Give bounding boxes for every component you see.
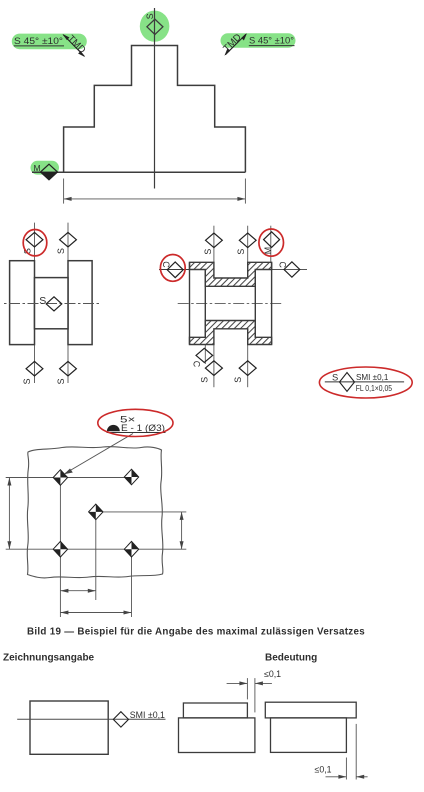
svg-text:S: S — [22, 378, 32, 384]
svg-text:S: S — [56, 248, 66, 254]
svg-text:S: S — [39, 295, 46, 307]
svg-text:S: S — [203, 249, 213, 255]
svg-text:Bedeutung: Bedeutung — [265, 653, 317, 664]
svg-text:FL 0,1×0,05: FL 0,1×0,05 — [356, 383, 393, 393]
svg-text:M: M — [34, 163, 41, 173]
svg-text:E - 1 (Ø3): E - 1 (Ø3) — [121, 423, 165, 433]
svg-text:S: S — [332, 371, 338, 382]
svg-text:≤0,1: ≤0,1 — [264, 669, 281, 679]
svg-text:C: C — [191, 361, 201, 368]
svg-text:S: S — [236, 249, 246, 255]
svg-text:SMI ±0,1: SMI ±0,1 — [356, 372, 389, 382]
svg-text:SMI ±0,1: SMI ±0,1 — [130, 710, 165, 720]
svg-text:S 45° ±10°: S 45° ±10° — [249, 36, 294, 47]
svg-text:S: S — [145, 13, 155, 19]
svg-text:Bild 19 — Beispiel für die Ang: Bild 19 — Beispiel für die Angabe des ma… — [27, 627, 365, 638]
svg-text:S: S — [56, 378, 66, 384]
svg-text:S: S — [233, 377, 243, 383]
svg-text:S 45° ±10°: S 45° ±10° — [14, 36, 63, 47]
svg-text:C: C — [277, 262, 287, 269]
svg-text:Zeichnungsangabe: Zeichnungsangabe — [3, 653, 95, 664]
svg-text:≤0,1: ≤0,1 — [315, 765, 332, 775]
svg-text:S: S — [200, 377, 210, 383]
